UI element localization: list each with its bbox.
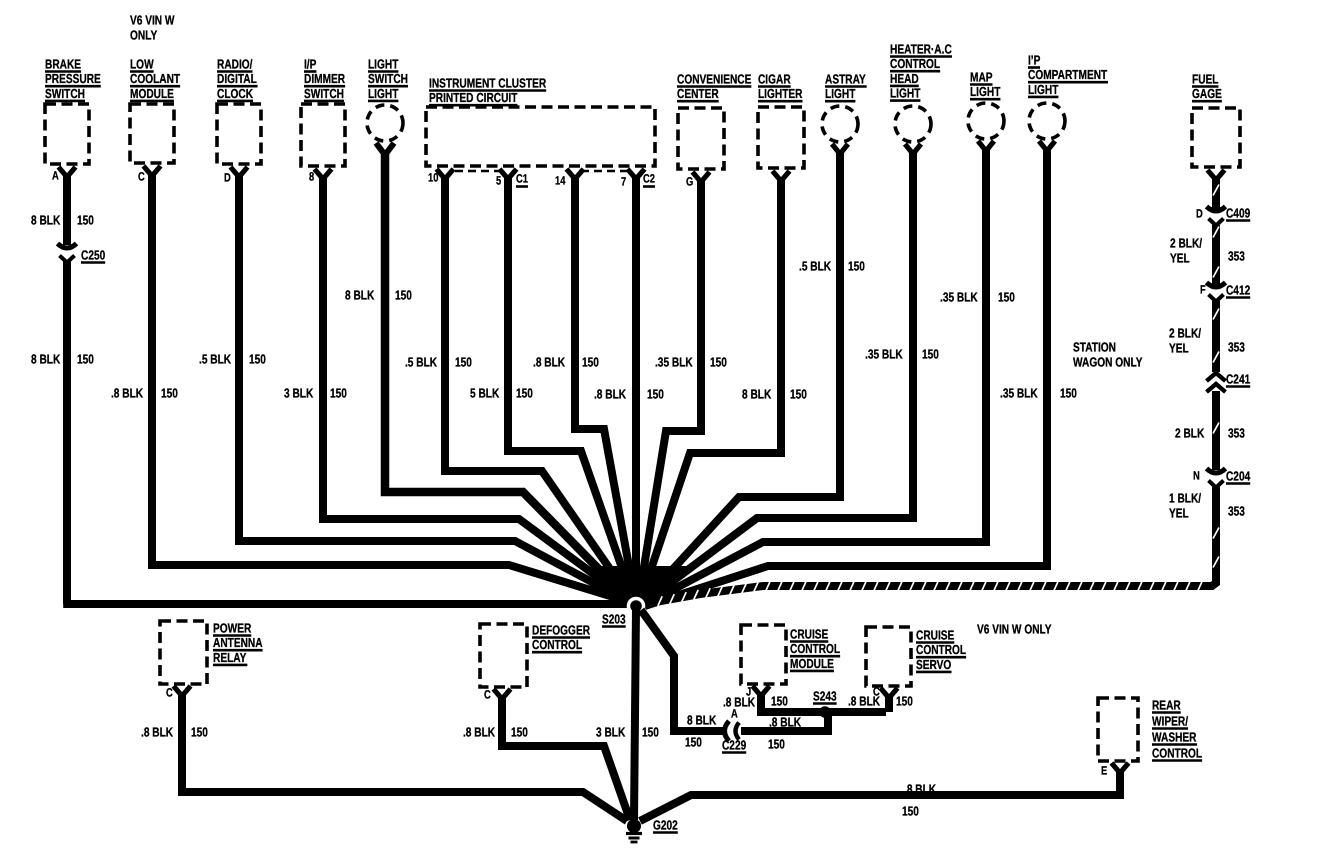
- svg-text:CONTROL: CONTROL: [916, 642, 966, 657]
- wire astray light to S203 (.5 BLK 150): [832, 144, 848, 154]
- svg-text:DEFOGGER: DEFOGGER: [532, 622, 591, 637]
- svg-text:2 BLK/: 2 BLK/: [1170, 235, 1202, 250]
- svg-text:CONTROL: CONTROL: [790, 641, 840, 656]
- wire light switch light to S203 (8 BLK 150): [376, 143, 394, 155]
- svg-text:2 BLK: 2 BLK: [1175, 425, 1205, 440]
- svg-text:YEL: YEL: [1169, 505, 1189, 520]
- connector bracket C1 dashed line: [455, 170, 499, 173]
- svg-text:SWITCH: SWITCH: [368, 71, 408, 86]
- svg-text:YEL: YEL: [1169, 340, 1189, 355]
- svg-text:150: 150: [998, 289, 1015, 304]
- wire instrument cluster pin 5 to S203 (5 BLK 150): [500, 169, 517, 179]
- svg-text:HEATER·A.C: HEATER·A.C: [890, 41, 952, 56]
- svg-text:G: G: [686, 175, 693, 189]
- wire map light to S203 (.35 BLK 150): [978, 141, 994, 151]
- svg-text:CENTER: CENTER: [677, 86, 719, 101]
- svg-text:I/P: I/P: [304, 56, 317, 71]
- svg-text:MODULE: MODULE: [130, 86, 174, 101]
- wire low coolant module to S203 (.8 BLK 150): [144, 166, 161, 176]
- svg-text:ANTENNA: ANTENNA: [213, 635, 263, 650]
- wire cruise control module pin J to S243 (.8 BLK 150): [753, 686, 770, 696]
- svg-text:C250: C250: [81, 247, 105, 262]
- svg-text:.8 BLK: .8 BLK: [769, 714, 802, 729]
- svg-text:D: D: [224, 171, 231, 185]
- splice S243: [819, 706, 831, 718]
- svg-text:LIGHT: LIGHT: [825, 86, 855, 101]
- svg-text:353: 353: [1228, 503, 1245, 518]
- connector C409: [1207, 207, 1226, 212]
- svg-text:G202: G202: [653, 817, 678, 832]
- svg-text:5: 5: [496, 174, 501, 188]
- wire instrument cluster pin 10 to S203 (.5 BLK 150): [437, 169, 454, 179]
- svg-text:E: E: [1101, 764, 1107, 778]
- svg-text:S243: S243: [813, 688, 837, 703]
- svg-text:YEL: YEL: [1170, 250, 1190, 265]
- svg-text:POWER: POWER: [213, 620, 252, 635]
- svg-text:150: 150: [685, 734, 702, 749]
- svg-text:150: 150: [710, 354, 727, 369]
- svg-text:C229: C229: [722, 737, 746, 752]
- wire instrument cluster pin 7 to S203 (.8 BLK 150): [628, 169, 645, 179]
- connector C241: [1207, 373, 1226, 381]
- svg-text:3 BLK: 3 BLK: [596, 724, 626, 739]
- svg-text:.8 BLK: .8 BLK: [723, 694, 756, 709]
- svg-text:8 BLK: 8 BLK: [345, 287, 375, 302]
- svg-text:C: C: [873, 685, 880, 699]
- wire I/P compartment light to S203 (.35 BLK 150): [1039, 141, 1055, 151]
- svg-text:I’P: I’P: [1028, 52, 1041, 67]
- svg-text:COMPARTMENT: COMPARTMENT: [1028, 67, 1107, 82]
- svg-text:C204: C204: [1226, 468, 1251, 483]
- svg-text:8 BLK: 8 BLK: [31, 351, 61, 366]
- svg-text:7: 7: [621, 175, 626, 189]
- svg-text:CLOCK: CLOCK: [217, 86, 254, 101]
- svg-text:150: 150: [790, 386, 807, 401]
- svg-text:5 BLK: 5 BLK: [470, 385, 500, 400]
- svg-text:DIGITAL: DIGITAL: [217, 71, 257, 86]
- svg-text:COOLANT: COOLANT: [130, 71, 180, 86]
- svg-text:1 BLK/: 1 BLK/: [1169, 490, 1201, 505]
- svg-text:353: 353: [1228, 339, 1245, 354]
- svg-text:150: 150: [768, 736, 785, 751]
- connector C250: [58, 244, 77, 249]
- svg-text:.8 BLK: .8 BLK: [594, 386, 627, 401]
- svg-text:C1: C1: [516, 172, 528, 186]
- svg-text:150: 150: [848, 258, 865, 273]
- svg-text:.35 BLK: .35 BLK: [865, 346, 903, 361]
- wire S203 to cruise branch (8 BLK 150): [641, 610, 725, 731]
- svg-text:LIGHT: LIGHT: [368, 56, 398, 71]
- svg-text:INSTRUMENT CLUSTER: INSTRUMENT CLUSTER: [429, 75, 547, 90]
- svg-text:A: A: [52, 169, 59, 183]
- svg-text:8 BLK: 8 BLK: [687, 712, 717, 727]
- wire power antenna relay to G202 (.8 BLK 150): [174, 686, 191, 696]
- svg-text:150: 150: [896, 693, 913, 708]
- wire convenience center to S203 (.35 BLK 150): [693, 172, 710, 182]
- svg-text:.35 BLK: .35 BLK: [1000, 385, 1038, 400]
- svg-text:SWITCH: SWITCH: [304, 86, 344, 101]
- svg-text:CONVENIENCE: CONVENIENCE: [677, 71, 752, 86]
- wire S203 to G202 (3 BLK 150): [634, 610, 636, 820]
- svg-text:.35 BLK: .35 BLK: [940, 289, 978, 304]
- svg-text:C: C: [484, 688, 491, 702]
- svg-text:SWITCH: SWITCH: [45, 86, 85, 101]
- connector C412: [1207, 283, 1226, 288]
- wire rear wiper/washer control to G202 (.8 BLK 150): [1112, 763, 1129, 773]
- connector bracket C2 dashed line: [581, 170, 627, 173]
- svg-text:C409: C409: [1226, 205, 1250, 220]
- svg-text:LOW: LOW: [130, 56, 154, 71]
- svg-text:8 BLK: 8 BLK: [742, 386, 772, 401]
- svg-text:150: 150: [77, 212, 94, 227]
- wire radio/digital clock to S203 (.5 BLK 150): [231, 167, 248, 177]
- svg-text:8 BLK: 8 BLK: [31, 212, 61, 227]
- svg-text:.5 BLK: .5 BLK: [799, 258, 832, 273]
- svg-text:150: 150: [1060, 385, 1077, 400]
- wire cigar lighter to S203 (8 BLK 150): [773, 171, 790, 181]
- connector C229: [725, 721, 730, 741]
- splice S203 fan wedge: [593, 566, 687, 606]
- wire heater-a.c control head light to S203 (.35 BLK 150): [905, 144, 921, 154]
- svg-text:CONTROL: CONTROL: [1152, 745, 1202, 760]
- svg-text:.5 BLK: .5 BLK: [405, 354, 438, 369]
- svg-text:14: 14: [555, 174, 566, 188]
- svg-text:DIMMER: DIMMER: [304, 71, 346, 86]
- splice S203: [627, 597, 646, 616]
- svg-text:S203: S203: [602, 611, 626, 626]
- svg-text:WAGON ONLY: WAGON ONLY: [1073, 354, 1143, 369]
- svg-text:.8 BLK: .8 BLK: [533, 354, 566, 369]
- svg-text:2 BLK/: 2 BLK/: [1169, 325, 1201, 340]
- svg-text:150: 150: [511, 724, 528, 739]
- svg-text:LIGHT: LIGHT: [368, 86, 398, 101]
- svg-text:SERVO: SERVO: [916, 657, 951, 672]
- svg-text:V6 VIN W ONLY: V6 VIN W ONLY: [977, 621, 1052, 636]
- svg-text:ASTRAY: ASTRAY: [825, 71, 866, 86]
- svg-text:LIGHT: LIGHT: [1028, 82, 1058, 97]
- svg-text:STATION: STATION: [1073, 339, 1116, 354]
- svg-text:CIGAR: CIGAR: [758, 71, 791, 86]
- wire defogger control to G202 (.8 BLK 150): [494, 689, 511, 699]
- svg-text:C2: C2: [643, 172, 655, 186]
- svg-text:PRINTED CIRCUIT: PRINTED CIRCUIT: [429, 90, 517, 105]
- svg-text:MAP: MAP: [970, 69, 993, 84]
- svg-text:C: C: [138, 170, 145, 184]
- svg-text:RADIO/: RADIO/: [217, 56, 253, 71]
- svg-text:353: 353: [1228, 248, 1245, 263]
- svg-text:.5 BLK: .5 BLK: [199, 351, 232, 366]
- hatch marks on fuel gage wire: [658, 185, 1219, 606]
- svg-text:.8 BLK: .8 BLK: [463, 724, 496, 739]
- wire fuel gage down right side (353 circuit): [1208, 170, 1225, 180]
- svg-text:LIGHT: LIGHT: [970, 84, 1000, 99]
- svg-text:353: 353: [1228, 425, 1245, 440]
- svg-text:CONTROL: CONTROL: [890, 56, 940, 71]
- svg-text:.35 BLK: .35 BLK: [655, 354, 693, 369]
- svg-text:LIGHTER: LIGHTER: [758, 86, 803, 101]
- svg-text:N: N: [1193, 469, 1200, 483]
- wire fuel gage elbow to S203 (hatched): [644, 487, 1216, 604]
- svg-text:150: 150: [77, 351, 94, 366]
- svg-text:CRUISE: CRUISE: [790, 626, 829, 641]
- svg-text:BRAKE: BRAKE: [45, 56, 81, 71]
- wire I/P dimmer switch to S203 (3 BLK 150): [315, 169, 332, 179]
- svg-text:FUEL: FUEL: [1192, 71, 1219, 86]
- svg-text:150: 150: [582, 354, 599, 369]
- svg-text:V6 VIN W: V6 VIN W: [130, 12, 175, 27]
- svg-text:150: 150: [455, 354, 472, 369]
- svg-text:.8 BLK: .8 BLK: [111, 385, 144, 400]
- svg-text:150: 150: [161, 385, 178, 400]
- wire instrument cluster pin 14 to S203 (.8 BLK 150): [567, 169, 584, 179]
- connector C204: [1207, 469, 1226, 474]
- ground G202: [627, 819, 641, 833]
- svg-text:CONTROL: CONTROL: [532, 637, 582, 652]
- wire cruise control servo pin C down to S243 wire: [881, 688, 898, 698]
- svg-text:PRESSURE: PRESSURE: [45, 71, 101, 86]
- svg-text:WIPER/: WIPER/: [1152, 713, 1188, 728]
- svg-text:150: 150: [249, 351, 266, 366]
- svg-text:3 BLK: 3 BLK: [284, 385, 314, 400]
- svg-text:REAR: REAR: [1152, 697, 1181, 712]
- svg-text:C412: C412: [1226, 282, 1250, 297]
- svg-text:150: 150: [395, 287, 412, 302]
- svg-text:MODULE: MODULE: [790, 656, 834, 671]
- svg-text:C241: C241: [1226, 371, 1250, 386]
- svg-text:F: F: [1200, 283, 1206, 297]
- svg-text:150: 150: [330, 385, 347, 400]
- svg-text:.8 BLK: .8 BLK: [141, 724, 174, 739]
- svg-text:150: 150: [922, 346, 939, 361]
- svg-text:LIGHT: LIGHT: [890, 85, 920, 100]
- svg-text:WASHER: WASHER: [1152, 729, 1197, 744]
- svg-text:CRUISE: CRUISE: [916, 627, 955, 642]
- svg-text:150: 150: [647, 386, 664, 401]
- svg-text:150: 150: [516, 385, 533, 400]
- svg-text:150: 150: [191, 724, 208, 739]
- svg-text:RELAY: RELAY: [213, 650, 247, 665]
- svg-text:150: 150: [642, 724, 659, 739]
- svg-text:150: 150: [902, 803, 919, 818]
- svg-text:HEAD: HEAD: [890, 71, 919, 86]
- svg-text:150: 150: [771, 693, 788, 708]
- wire brake pressure switch to S203 (8 BLK 150): [59, 167, 76, 177]
- svg-text:D: D: [1196, 207, 1203, 221]
- svg-text:.8 BLK: .8 BLK: [904, 781, 937, 796]
- svg-text:GAGE: GAGE: [1192, 86, 1222, 101]
- svg-text:ONLY: ONLY: [130, 27, 157, 42]
